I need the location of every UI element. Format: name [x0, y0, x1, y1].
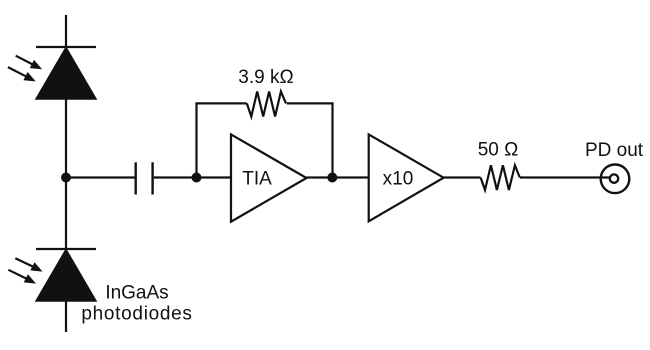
wire node to capacitor — [66, 176, 135, 178]
wire x10 output — [444, 176, 481, 178]
capacitor C1 right plate — [151, 162, 153, 194]
resistor R1 3.9k zigzag — [247, 92, 286, 117]
svg-text:PD out: PD out — [585, 140, 644, 161]
connector J1 inner circle — [610, 174, 618, 182]
wire resistor to connector — [520, 176, 610, 178]
wire top bias lead — [65, 15, 67, 47]
node TIA input dot — [192, 173, 202, 183]
svg-text:InGaAs: InGaAs — [105, 283, 168, 304]
wire bottom bias lead — [65, 301, 67, 332]
wire feedback top left — [195, 102, 246, 104]
photodiode D1 triangle — [36, 48, 96, 100]
wire TIA output — [307, 176, 369, 178]
op-amp U2 x10 triangle — [369, 134, 444, 221]
photodiode D2 cathode bar — [36, 248, 96, 250]
svg-text:x10: x10 — [383, 169, 414, 190]
light arrow D1 lower — [8, 67, 36, 81]
light arrow D2 lower — [8, 270, 36, 284]
svg-text:50 Ω: 50 Ω — [478, 140, 519, 161]
capacitor C1 left plate — [134, 162, 136, 194]
node junction dot — [61, 173, 71, 183]
wire feedback top right — [287, 102, 334, 104]
photodiode D1 cathode bar — [36, 46, 96, 48]
wire capacitor to TIA input — [154, 176, 231, 178]
svg-text:TIA: TIA — [242, 169, 272, 190]
connector J1 outer circle — [601, 165, 630, 194]
resistor R2 50 ohm zigzag — [481, 165, 520, 190]
wire feedback left vertical — [195, 103, 197, 177]
svg-text:3.9 kΩ: 3.9 kΩ — [238, 67, 293, 88]
wire photodiode junction vertical — [65, 99, 67, 249]
svg-text:photodiodes: photodiodes — [81, 304, 192, 325]
op-amp U1 TIA triangle — [231, 134, 307, 221]
light arrow D2 upper — [15, 258, 42, 271]
photodiode D2 triangle — [36, 250, 96, 302]
wire feedback right vertical — [331, 103, 333, 177]
node TIA output dot — [327, 173, 337, 183]
light arrow D1 upper — [16, 56, 42, 70]
